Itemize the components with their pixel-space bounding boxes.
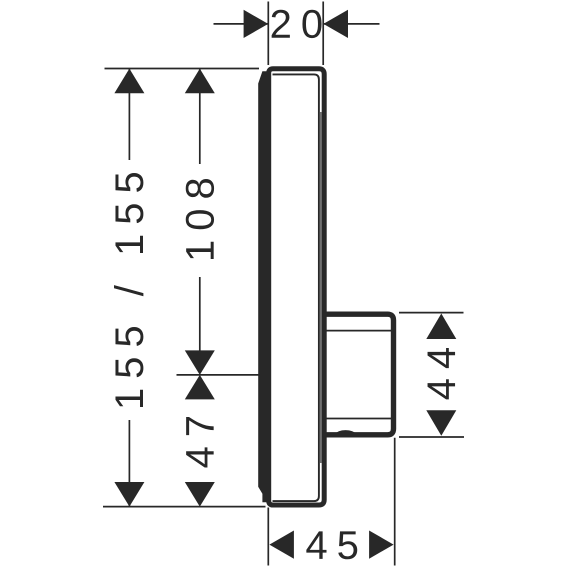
dimension 45: left arrow: [269, 531, 294, 559]
dimension 108: down arrow (bowtie upper): [185, 350, 215, 375]
dimension 155/155: line lower segment: [128, 420, 130, 507]
dimension 108: label: [186, 179, 214, 259]
dimension 155/155: up arrow: [114, 69, 144, 94]
bottom extension line (155 / 47): [103, 506, 266, 508]
reference line (centre of box): [177, 374, 260, 376]
dimension 45: left extension line: [267, 508, 269, 566]
top extension line (155 / 108): [105, 68, 260, 70]
dimension 44: down arrow: [426, 410, 456, 436]
bump detail on box bottom edge: [334, 430, 358, 434]
wall flange bar (left edge of plate): [258, 71, 271, 502]
escutcheon plate outer profile (side view): [269, 69, 325, 505]
dimension 47: down arrow: [185, 482, 215, 507]
dimension 108: line upper segment: [199, 69, 201, 164]
dimension 45: right extension line: [394, 438, 396, 566]
dimension 44: label: [428, 348, 456, 399]
dimension 20: right arrow: [323, 10, 348, 38]
dimension 155/155: down arrow: [114, 482, 144, 507]
box inner line top: [327, 330, 392, 332]
dimension 155/155: line upper segment: [128, 69, 130, 160]
dimension 20: right extension line: [322, 2, 324, 66]
dimension 108: line lower segment: [199, 277, 201, 351]
dimension 20: label: [272, 10, 322, 38]
dimension 20: left extension line: [267, 2, 269, 66]
dimension 44: up arrow: [426, 314, 456, 340]
concealed body box (right protrusion): [324, 314, 394, 435]
dimension 44: bottom extension line: [399, 436, 464, 438]
dimension 44: top extension line: [399, 312, 464, 314]
dimension 108: up arrow: [185, 69, 215, 94]
dimension 20: left tail: [214, 23, 269, 25]
right edge seam shading: [320, 112, 322, 463]
dimension 45: right arrow: [369, 531, 394, 559]
dimension 47: up arrow (bowtie lower): [185, 375, 215, 400]
plate inner thin outline: [273, 74, 319, 501]
dimension 45: label: [306, 531, 357, 559]
dimension 20: left arrow: [244, 10, 269, 38]
dimension 20: right tail: [324, 23, 380, 25]
dimension 47: label: [186, 417, 214, 468]
dimension 155/155: label: [114, 173, 143, 407]
box inner line bottom: [327, 418, 392, 420]
